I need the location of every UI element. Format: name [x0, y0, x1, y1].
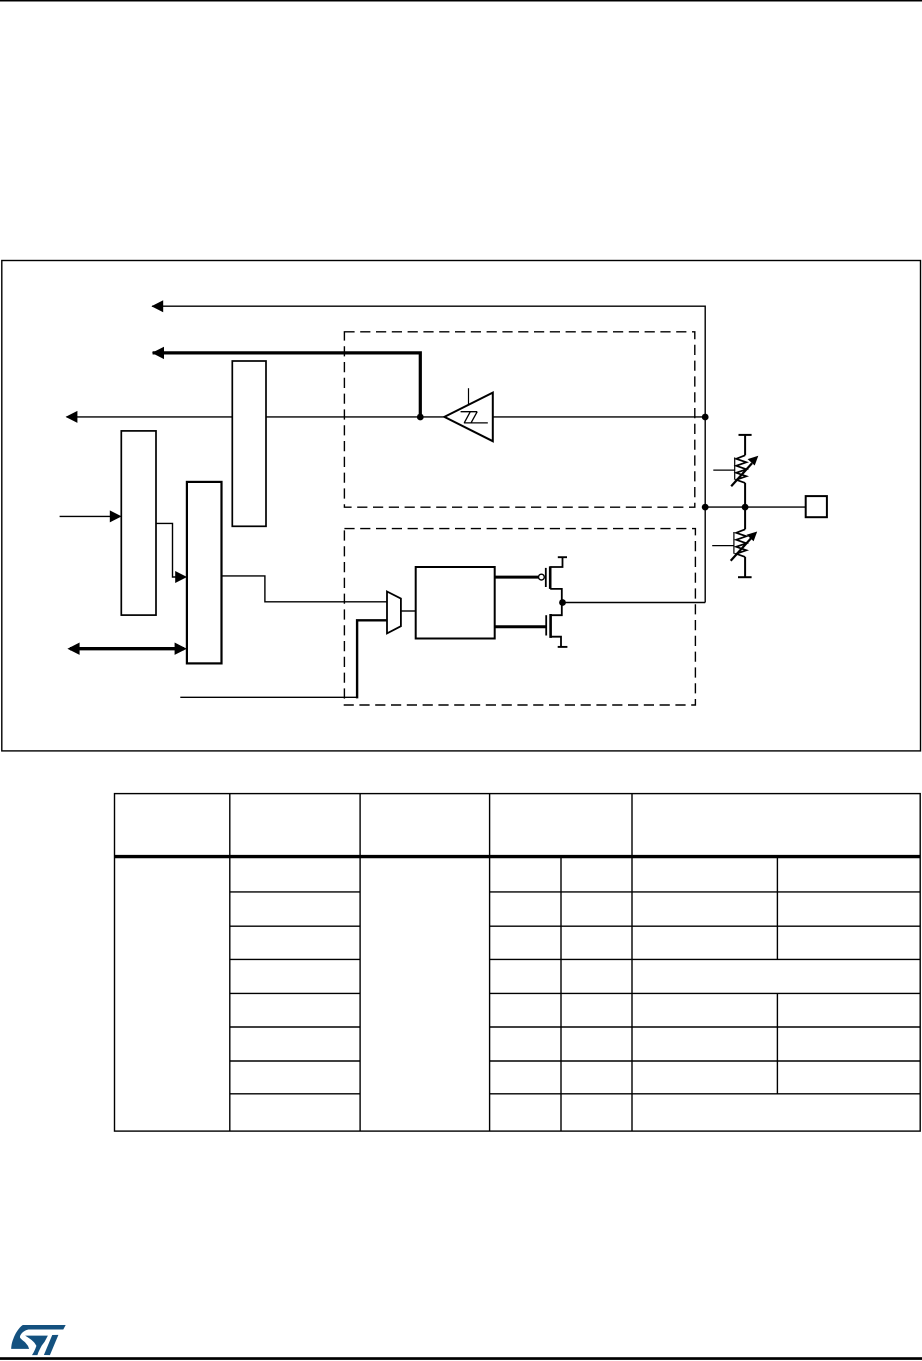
wire: schmitt input line across page [67, 416, 445, 418]
callout tick on schmitt trigger [468, 388, 470, 405]
wire: pad line to I/O pin [705, 506, 806, 508]
wire: output data register to bit control [156, 523, 179, 577]
transistor Q1 P-MOS gate bar [545, 568, 547, 587]
node: driver output junction [559, 599, 566, 606]
wire: read/write bidirectional (bold) [70, 647, 184, 650]
I/O pin square [806, 496, 827, 517]
transistor Q1 P-MOS source arm to VDD [550, 557, 562, 567]
arrowhead: read data left end [152, 347, 164, 359]
control lead of R1 [713, 469, 734, 471]
transistor Q1 P-MOS drain arm [550, 589, 562, 603]
node: schmitt input junction [417, 414, 424, 421]
wire: pull-up R1 to pad line [744, 483, 746, 507]
wire: VDD to pull-up R1 [744, 435, 746, 455]
arrowhead: write input [110, 510, 122, 522]
transistor Q2 N-MOS drain arm [551, 603, 562, 616]
variable arrow of R1 [731, 463, 752, 486]
wire: alternate function output (bottom control line) [180, 696, 357, 698]
wire: analog/read line to pad node [152, 306, 705, 602]
hysteresis symbol inside U1 [461, 412, 488, 423]
block: output control [416, 567, 495, 639]
VSS tick below R2 [738, 576, 752, 578]
wire: N-MOS gate (bold) [495, 625, 547, 628]
node: pad net at pin line [702, 504, 709, 511]
wire: driver output to pad net [562, 602, 705, 604]
block: output data register [121, 431, 156, 615]
arrowhead: analog/read line left end [151, 300, 163, 312]
wire: mux output to output control [401, 610, 416, 612]
wire: write input into output data register [60, 515, 112, 517]
wire: alternate function riser (bold) [357, 620, 387, 698]
VSS tick below Q2 [558, 646, 568, 648]
schmitt trigger U1 [444, 393, 492, 442]
mux (output source selector) [387, 592, 401, 634]
block: read/write bit control [187, 482, 222, 664]
resistor R1 pull-up (zigzag) [736, 455, 746, 483]
dashed box: input driver [344, 332, 694, 507]
arrowhead: read/write left [67, 643, 79, 655]
arrowhead: input line left end [66, 411, 78, 423]
transistor Q1 P-MOS channel bar [549, 566, 552, 589]
bottom page rule [0, 1357, 922, 1360]
wire: pad line to pull-down R2 [744, 507, 746, 529]
wire: schmitt output to pad node [493, 416, 705, 418]
control lead of R2 [712, 545, 734, 547]
transistor Q2 N-MOS channel bar [549, 614, 552, 638]
control bar of R2 [733, 532, 735, 554]
variable arrow of R2 [731, 538, 752, 561]
wire: pull-down R2 to VSS [744, 557, 746, 577]
block: input data register [232, 361, 266, 526]
table: row lines [230, 892, 920, 1094]
transistor Q2 N-MOS gate bar [545, 615, 547, 635]
table: outer border [115, 794, 921, 1132]
top page rule [0, 0, 922, 2]
arrowhead: into bit control block [175, 571, 187, 583]
resistor R2 pull-down (zigzag) [736, 529, 746, 557]
node: pull resistor junction [742, 504, 749, 511]
wire: mux top input from bit control [222, 576, 388, 602]
transistor Q2 N-MOS source arm to VSS [551, 637, 561, 647]
table: header separator (bold) [115, 855, 921, 858]
VDD tick above Q1 [558, 556, 567, 558]
wire: P-MOS gate (bold) [495, 576, 539, 579]
dashed box: output driver [344, 529, 695, 705]
node: pad net at schmitt input line [702, 414, 709, 421]
ST logo [11, 1325, 66, 1355]
transistor Q1 P-MOS gate bubble [539, 574, 545, 580]
figure frame [2, 261, 921, 751]
table: column lines [230, 794, 778, 1132]
arrowhead: read/write right [175, 643, 187, 655]
VDD tick above pull-up R1 [739, 434, 752, 436]
control bar of R1 [734, 457, 736, 479]
wire: read data (bold) from schmitt output node [153, 353, 421, 417]
